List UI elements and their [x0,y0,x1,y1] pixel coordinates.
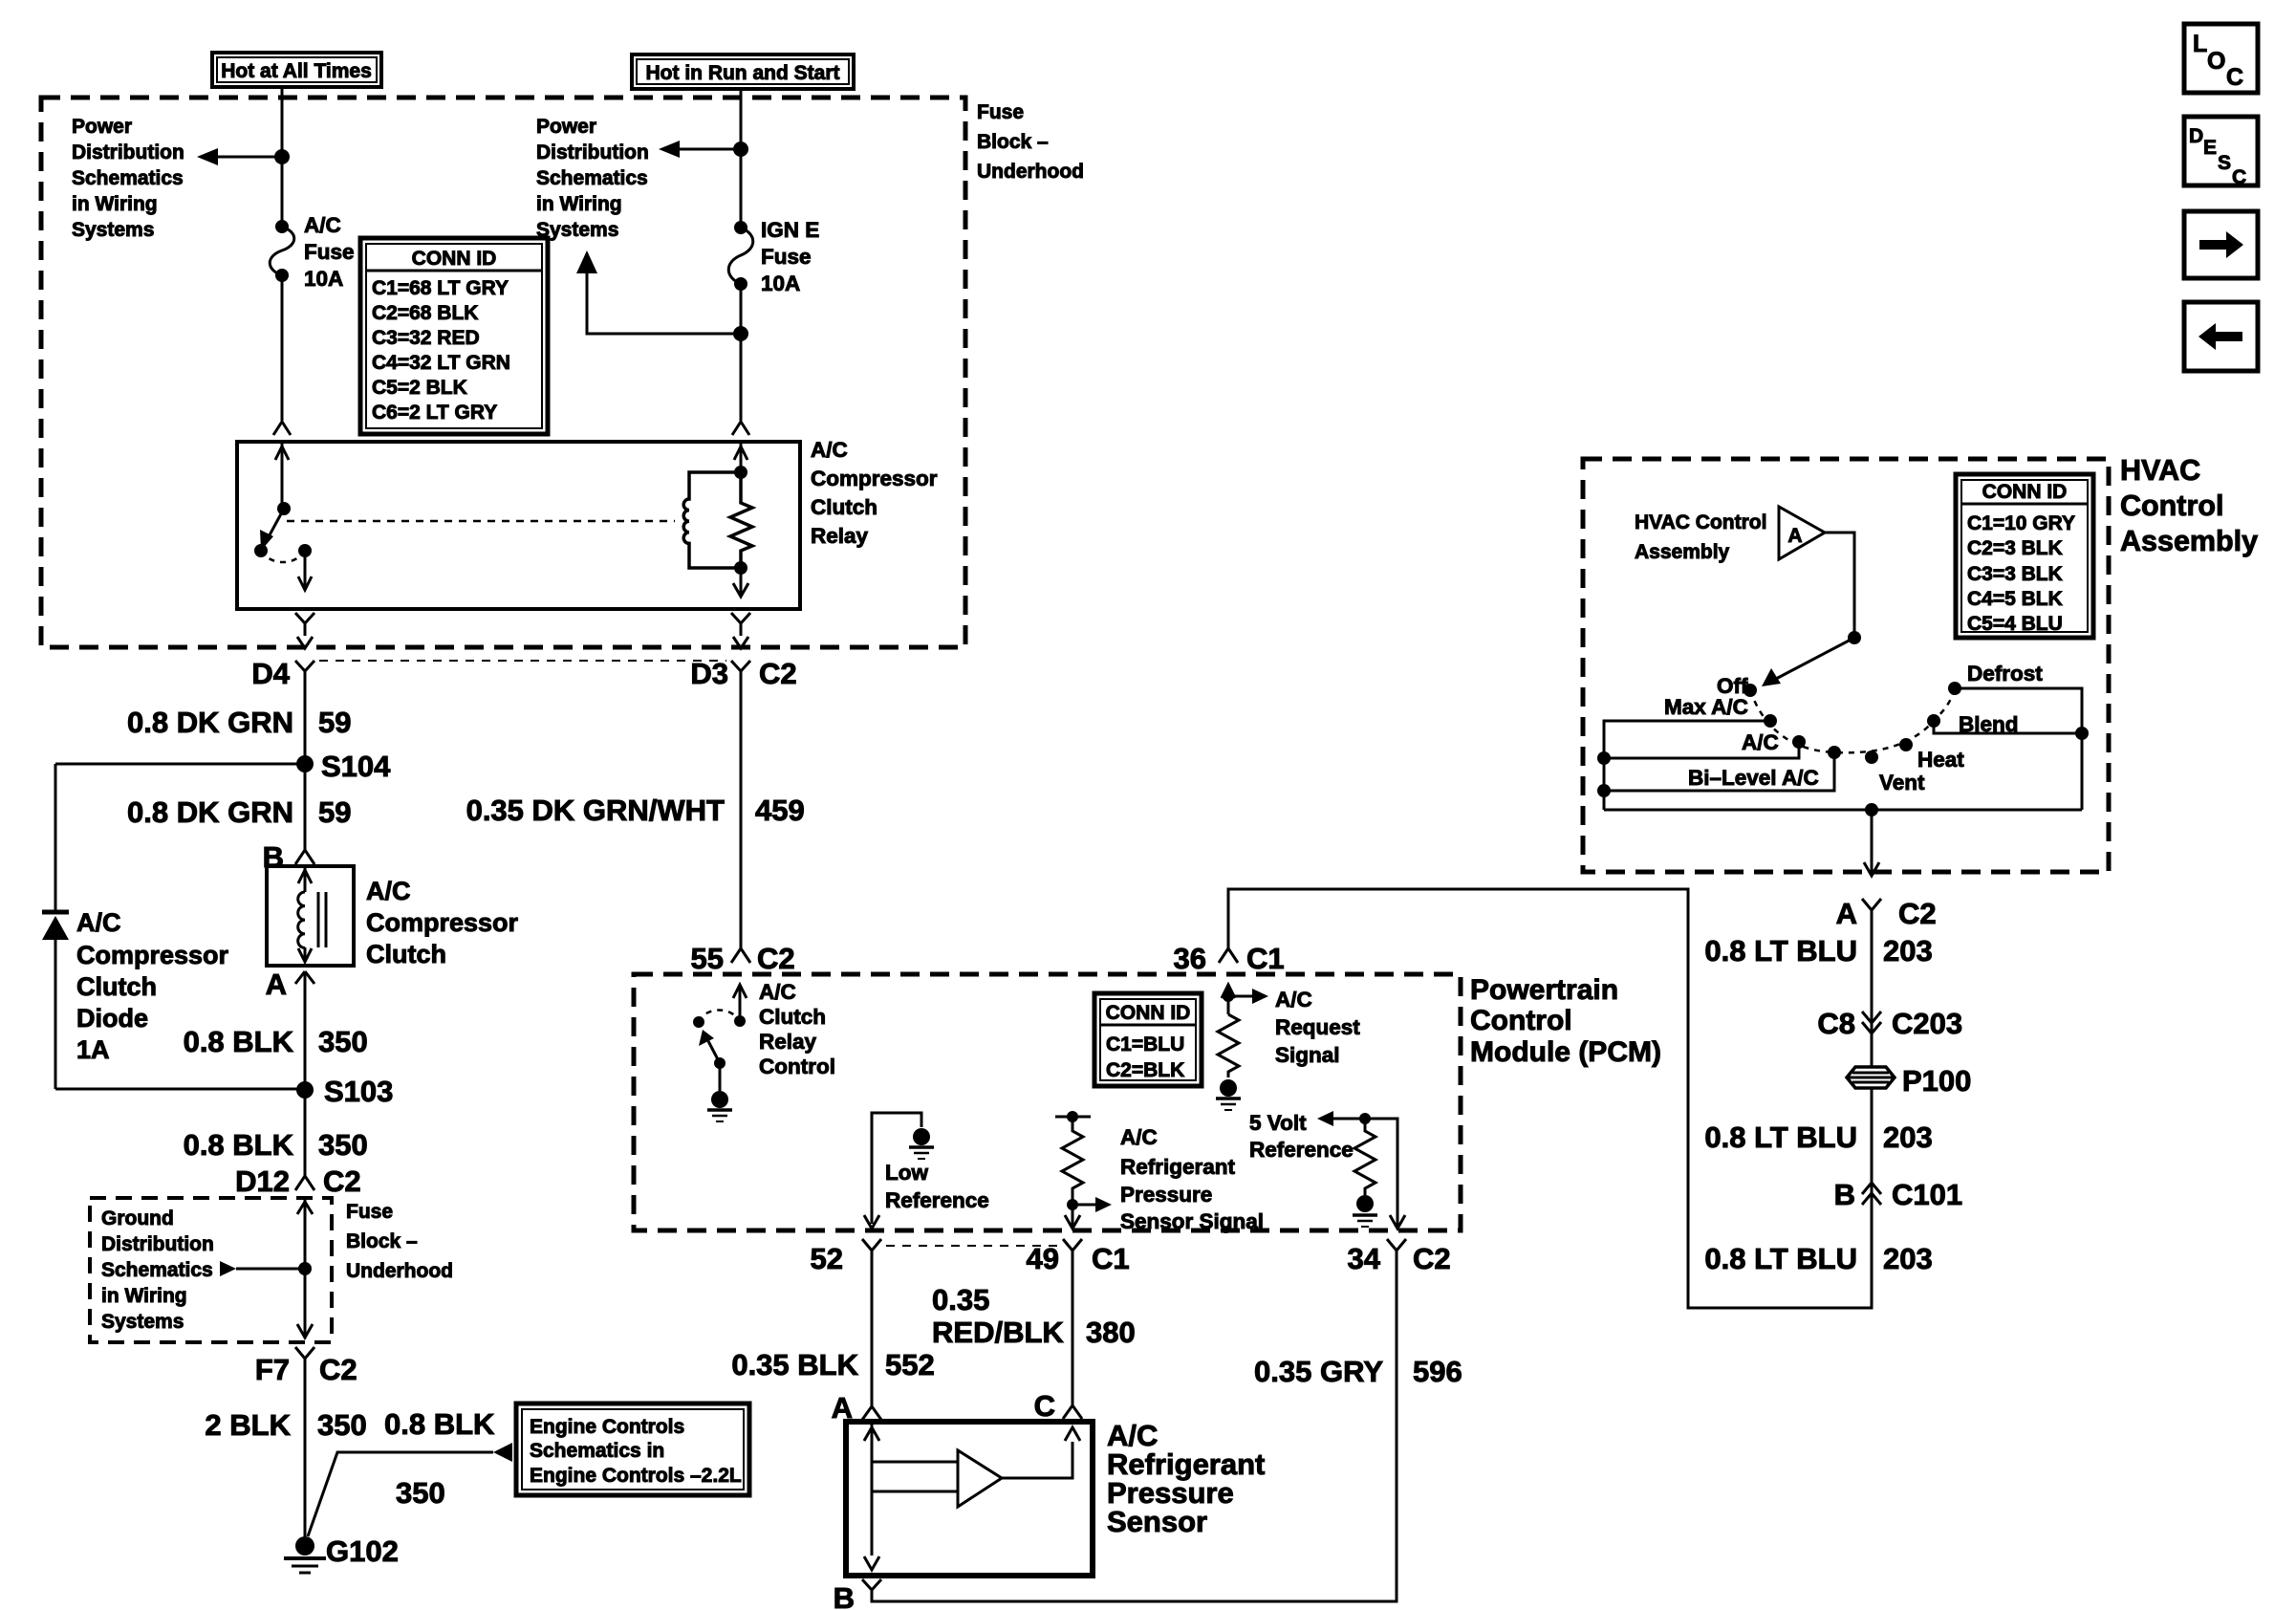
svg-text:D12: D12 [235,1164,290,1198]
connector chevron into relay box right [732,422,749,435]
svg-text:0.35 BLK: 0.35 BLK [731,1348,858,1382]
fuse A/C 10A [270,220,294,282]
sensor internal wires and op-amp [864,1422,1080,1570]
connector D4 C2 [251,657,314,690]
svg-text:Bi–Level A/C: Bi–Level A/C [1688,766,1819,790]
node S104 splice [296,750,391,783]
svg-text:0.8 BLK: 0.8 BLK [184,1025,294,1058]
svg-text:C1=10 GRY: C1=10 GRY [1967,512,2075,534]
relay coil [683,472,741,568]
svg-text:34: 34 [1348,1242,1381,1275]
svg-text:Fuse: Fuse [761,245,812,269]
svg-text:Fuse: Fuse [977,101,1024,123]
relay switch throw contact [298,544,312,590]
wire relay main right bottom arrow [733,568,748,597]
wire fuse to relay box left [281,275,284,421]
svg-text:Underhood: Underhood [346,1260,453,1282]
svg-text:Vent: Vent [1879,771,1925,794]
connector 49 C1 [1027,1239,1130,1275]
wire up-arrow feed loop [576,250,741,334]
wire Bi-Level to left bus [1597,752,1834,797]
wire branch 0.8 BLK 350 to engine controls [308,1407,512,1536]
relay switch throw dashed arc [261,551,305,562]
svg-text:Heat: Heat [1917,748,1964,772]
svg-text:1A: 1A [76,1035,110,1064]
svg-text:Clutch: Clutch [759,1005,826,1029]
label A/C Refrigerant Pressure Sensor Signal [1120,1125,1264,1233]
fuse block underhood dashed box [41,98,965,647]
resistor A/C refrigerant pressure sensor signal [1055,1111,1112,1229]
svg-text:Request: Request [1275,1015,1360,1039]
wire 52 to sensor A [731,1260,934,1406]
label A/C Compressor Clutch Diode 1A [76,908,229,1064]
diode D1 A/C compressor clutch diode [42,764,69,1089]
svg-text:Underhood: Underhood [977,161,1084,183]
connector chevron into relay box left [273,422,291,435]
connector A sensor [832,1391,881,1425]
wire bottom bus [1604,803,2082,816]
svg-text:203: 203 [1883,1242,1933,1275]
PCM dashed box [634,974,1461,1230]
wire hot-in-run vertical [740,89,743,228]
label Low Reference [885,1161,989,1212]
node junction dot left feed [274,149,290,164]
connector 36 C1 [1174,942,1285,975]
wire S103 to D12 [184,1090,368,1176]
svg-text:49: 49 [1027,1242,1059,1275]
svg-text:A/C: A/C [366,877,411,905]
svg-text:Schematics: Schematics [101,1259,213,1281]
svg-text:C1: C1 [1092,1242,1130,1275]
label A/C Compressor Clutch [366,877,519,968]
svg-text:Systems: Systems [101,1311,184,1333]
wire branch to power distribution right [659,141,741,158]
svg-text:Low: Low [885,1161,928,1185]
svg-text:in Wiring: in Wiring [72,193,158,215]
connector D3 C2 [690,657,796,690]
svg-text:C: C [2226,64,2243,91]
svg-text:Relay: Relay [759,1030,817,1054]
svg-text:0.8 BLK: 0.8 BLK [184,1128,294,1162]
svg-text:B: B [1834,1178,1855,1211]
wire buffer to selector pivot [1825,533,1861,644]
relay U1 A/C compressor clutch relay box [237,442,800,609]
svg-text:C2: C2 [759,657,797,690]
label Powertrain Control Module (PCM) [1470,974,1661,1068]
svg-text:S104: S104 [321,750,391,783]
connector 52 [811,1239,881,1275]
svg-text:Engine Controls: Engine Controls [530,1416,684,1438]
svg-text:203: 203 [1883,1120,1933,1154]
connector A C2 HVAC [1836,897,1937,930]
wire A to S103 [184,986,368,1090]
contact Heat [1899,738,1964,772]
svg-text:C2: C2 [323,1164,361,1198]
svg-text:IGN E: IGN E [761,218,819,242]
svg-text:Clutch: Clutch [366,940,446,968]
wire ign fuse to relay box right [740,284,743,421]
fuse IGN E 10A [728,221,753,291]
wire dashed connector link 52-49 [886,1245,1059,1247]
svg-text:Signal: Signal [1275,1043,1340,1067]
svg-text:0.8 LT BLU: 0.8 LT BLU [1704,934,1857,968]
connector B C101 [1834,1178,1963,1211]
svg-text:F7: F7 [255,1353,290,1386]
svg-text:2 BLK: 2 BLK [205,1408,291,1442]
svg-text:S103: S103 [324,1075,393,1108]
svg-text:Fuse: Fuse [346,1201,393,1223]
wire A to C8 [1704,922,1932,1067]
ground clutch relay control [707,1091,732,1121]
svg-text:Sensor: Sensor [1107,1505,1207,1538]
selector wiper arrow [1762,638,1854,686]
svg-text:E: E [2203,137,2217,159]
ground G102 [284,1534,399,1573]
wire Max A/C to left bus [1604,721,1770,810]
svg-text:Assembly: Assembly [1635,541,1730,563]
svg-text:C5=2 BLK: C5=2 BLK [372,377,467,399]
svg-text:Compressor: Compressor [76,941,229,969]
svg-text:0.35 DK GRN/WHT: 0.35 DK GRN/WHT [466,794,725,827]
svg-text:O: O [2207,48,2225,75]
relay switch common arm [254,442,291,557]
svg-text:A/C: A/C [304,213,341,237]
wire D3 to PCM pin 55 [466,684,805,948]
svg-text:HVAC: HVAC [2120,454,2200,487]
svg-text:C203: C203 [1892,1007,1962,1040]
svg-text:59: 59 [318,795,351,829]
connector B sensor [834,1579,881,1610]
svg-text:C5=4 BLU: C5=4 BLU [1967,613,2063,635]
svg-text:0.8 DK GRN: 0.8 DK GRN [127,706,293,739]
svg-text:A/C: A/C [1275,988,1312,1012]
svg-text:A/C: A/C [811,438,848,462]
svg-text:Reference: Reference [1249,1138,1354,1162]
wire 49 to sensor C [932,1260,1136,1405]
svg-text:Assembly: Assembly [2120,525,2258,557]
svg-text:P100: P100 [1902,1064,1971,1098]
wire Defrost to right bus [1955,688,2082,810]
svg-text:350: 350 [396,1476,445,1510]
svg-text:C: C [2232,166,2246,188]
svg-text:D3: D3 [690,657,728,690]
connector B clutch [263,840,314,874]
svg-text:459: 459 [755,794,805,827]
svg-text:Compressor: Compressor [366,908,519,937]
svg-text:10A: 10A [304,267,343,291]
svg-text:10A: 10A [761,272,800,295]
label Fuse Block - Underhood (top) [977,101,1084,183]
connector D12 C2 [235,1164,361,1198]
svg-text:C2: C2 [757,942,795,975]
svg-text:D: D [2189,125,2203,147]
reference box engine controls schematics [516,1403,749,1495]
svg-text:CONN ID: CONN ID [1982,481,2068,503]
label 5 Volt Reference [1249,1111,1354,1162]
svg-text:350: 350 [317,1408,367,1442]
connector 34 C2 [1348,1239,1451,1275]
svg-text:0.8 DK GRN: 0.8 DK GRN [127,795,293,829]
label IGN E Fuse 10A [761,218,819,295]
ground distribution dashed box [90,1198,332,1342]
svg-text:Control: Control [2120,490,2223,522]
label A/C Refrigerant Pressure Sensor [1107,1419,1265,1538]
svg-text:Schematics in: Schematics in [530,1440,664,1462]
svg-text:Distribution: Distribution [72,141,184,163]
svg-text:D4: D4 [251,657,290,690]
svg-text:Reference: Reference [885,1188,989,1212]
wire S104 to diode top [55,763,305,766]
svg-text:350: 350 [318,1128,368,1162]
selector dashed arc [1750,688,1955,752]
svg-text:A/C: A/C [759,980,796,1004]
svg-text:0.35 GRY: 0.35 GRY [1254,1355,1383,1388]
svg-text:C6=2 LT GRY: C6=2 LT GRY [372,402,497,424]
contact A/C [1742,730,1806,754]
grommet P100 [1847,1064,1971,1098]
svg-text:B: B [834,1581,855,1610]
buffer A triangle [1779,507,1825,559]
svg-text:A: A [266,968,287,1001]
wire through ground box [297,1198,313,1338]
contact Bi-Level A/C [1688,746,1841,790]
svg-text:Distribution: Distribution [536,141,649,163]
contact Blend [1927,712,2019,736]
label box Hot at All Times [212,53,381,87]
contact Defrost [1948,662,2043,695]
nav button DESC [2184,117,2258,188]
svg-text:C: C [1034,1389,1055,1423]
svg-text:5 Volt: 5 Volt [1249,1111,1307,1135]
connector C8 C203 [1817,1007,1962,1040]
svg-text:CONN ID: CONN ID [1106,1002,1191,1024]
svg-text:C2: C2 [1413,1242,1451,1275]
svg-text:CONN ID: CONN ID [412,248,497,270]
CONN ID table HVAC [1956,474,2093,638]
svg-text:350: 350 [318,1025,368,1058]
svg-text:C1=BLU: C1=BLU [1106,1033,1184,1055]
contact Max A/C [1664,695,1777,728]
svg-text:C4=5 BLK: C4=5 BLK [1967,588,2063,610]
svg-text:Hot at All Times: Hot at All Times [221,60,372,82]
svg-text:52: 52 [811,1242,843,1275]
svg-text:Block –: Block – [346,1230,418,1252]
svg-text:C2: C2 [319,1353,357,1386]
svg-text:A/C: A/C [1120,1125,1158,1149]
svg-text:552: 552 [885,1348,935,1382]
HVAC control assembly dashed box [1583,459,2109,872]
wire relay main right top arrow [734,442,747,472]
svg-text:Clutch: Clutch [811,495,877,519]
switch A/C clutch relay control [693,985,747,1091]
label A/C Fuse 10A [304,213,355,291]
svg-text:Power: Power [72,116,132,138]
sensor U2 A/C refrigerant pressure sensor box [846,1422,1093,1576]
svg-text:Schematics: Schematics [536,167,648,189]
svg-text:A/C: A/C [1742,730,1779,754]
svg-text:C8: C8 [1817,1007,1855,1040]
label Fuse Block - Underhood (bottom) [346,1201,453,1282]
wire A/C to left bus [1597,742,1799,765]
wire diode bottom to S103 [55,1088,305,1091]
resistor A/C request signal [1218,985,1268,1077]
svg-text:Schematics: Schematics [72,167,184,189]
svg-text:596: 596 [1413,1355,1462,1388]
connector 55 C2 [691,942,795,975]
clutch coil and plates [298,866,326,962]
ground low reference [909,1128,934,1159]
svg-text:Engine Controls –2.2L: Engine Controls –2.2L [530,1465,742,1487]
annotation power distribution schematics (left) [72,116,184,241]
nav button LOC [2184,24,2258,93]
wire PCM pin 36 to HVAC loop [1228,889,1872,1308]
annotation ground distribution schematics [101,1207,214,1333]
svg-text:59: 59 [318,706,351,739]
svg-text:36: 36 [1174,942,1206,975]
svg-text:G102: G102 [326,1534,399,1568]
svg-text:Control: Control [1470,1005,1572,1036]
wire F7 to G102 [205,1371,366,1541]
svg-text:Pressure: Pressure [1120,1183,1212,1207]
svg-text:C1: C1 [1246,942,1285,975]
label A/C Clutch Relay Control [759,980,835,1078]
relay actuation dashed link [287,520,675,523]
node coil bottom junction [734,561,747,575]
svg-text:Control: Control [759,1055,835,1078]
svg-text:RED/BLK: RED/BLK [932,1316,1064,1349]
svg-text:C3=3 BLK: C3=3 BLK [1967,563,2063,585]
wire C101 down [1704,1242,1932,1275]
svg-text:Defrost: Defrost [1967,662,2043,685]
svg-text:Ground: Ground [101,1207,174,1229]
label A/C Request Signal [1275,988,1360,1067]
svg-text:Power: Power [536,116,596,138]
svg-text:A: A [1836,897,1857,930]
svg-text:C4=32 LT GRN: C4=32 LT GRN [372,352,510,374]
wire 34 to sensor B [872,1260,1462,1601]
svg-text:380: 380 [1086,1316,1136,1349]
connector exit below relay box left [295,613,314,648]
node ground box junction [298,1262,312,1275]
svg-text:Refrigerant: Refrigerant [1120,1155,1236,1179]
node coil top junction [734,466,747,479]
wire branch to power distribution [197,148,282,165]
wire branch to ground schematics arrow [220,1261,305,1276]
svg-text:55: 55 [691,942,724,975]
svg-text:Compressor: Compressor [811,467,938,490]
svg-text:L: L [2193,31,2207,57]
svg-text:C2=BLK: C2=BLK [1106,1059,1184,1081]
svg-text:Module (PCM): Module (PCM) [1470,1036,1661,1068]
node junction dot right feed [733,141,748,157]
svg-text:in Wiring: in Wiring [536,193,622,215]
svg-text:Diode: Diode [76,1004,148,1033]
svg-text:0.8 LT BLU: 0.8 LT BLU [1704,1242,1857,1275]
contact Vent [1865,751,1925,794]
svg-text:A/C: A/C [76,908,121,937]
svg-text:HVAC Control: HVAC Control [1635,511,1766,533]
svg-text:C2=68 BLK: C2=68 BLK [372,302,478,324]
svg-text:S: S [2218,152,2231,174]
svg-text:C2=3 BLK: C2=3 BLK [1967,537,2063,559]
wire hot-at-all-times vertical [281,87,284,227]
ground A/C request signal [1216,1079,1241,1110]
svg-text:Powertrain: Powertrain [1470,974,1618,1006]
annotation HVAC Control Assembly (inner) [1635,511,1766,563]
resistor 5 volt reference [1317,1111,1405,1229]
connector F7 C2 [255,1347,357,1386]
svg-text:in Wiring: in Wiring [101,1285,187,1307]
svg-text:0.35: 0.35 [932,1283,989,1316]
label HVAC Control Assembly title [2120,454,2258,557]
svg-text:C3=32 RED: C3=32 RED [372,327,480,349]
svg-text:203: 203 [1883,934,1933,968]
connector A clutch [266,968,314,1001]
svg-text:Sensor Signal: Sensor Signal [1120,1209,1264,1233]
clutch L1 A/C compressor clutch box [267,866,354,966]
svg-text:Hot in Run and Start: Hot in Run and Start [646,62,840,84]
wire S104 to clutch B [127,764,351,850]
svg-text:Clutch: Clutch [76,972,157,1001]
nav button arrow left [2184,302,2258,371]
label box Hot in Run and Start [632,54,854,89]
connector exit below relay box right [731,613,750,648]
contact Off [1717,674,1757,698]
connector C sensor [1034,1389,1082,1423]
label A/C Compressor Clutch Relay [811,438,938,548]
node junction dot ign feed [733,326,748,341]
resistor relay coil suppression [730,472,752,568]
svg-text:Relay: Relay [811,524,869,548]
svg-text:Block –: Block – [977,131,1049,153]
annotation power distribution schematics (right) [536,116,649,241]
ground 5 volt reference [1353,1195,1377,1227]
svg-text:Systems: Systems [72,219,154,241]
svg-text:Max A/C: Max A/C [1664,695,1748,719]
CONN ID table fuse block [360,238,548,434]
wire P100 to C101 [1704,1087,1932,1272]
wire selector output [1864,810,1879,876]
svg-text:Distribution: Distribution [101,1233,214,1255]
nav button arrow right [2184,211,2258,278]
svg-text:A: A [1787,525,1802,547]
wire dashed connector link D4-D3 [319,660,726,662]
svg-text:C101: C101 [1892,1178,1962,1211]
wire Blend to right bus [1934,721,2089,740]
wire D4 to S104 [127,684,351,764]
low reference wire [864,1113,921,1229]
svg-text:C1=68 LT GRY: C1=68 LT GRY [372,277,509,299]
svg-text:Fuse: Fuse [304,240,355,264]
svg-text:0.8 LT BLU: 0.8 LT BLU [1704,1120,1857,1154]
node S103 splice [296,1075,393,1108]
CONN ID table PCM [1094,993,1202,1086]
svg-text:C2: C2 [1898,897,1937,930]
svg-text:0.8 BLK: 0.8 BLK [384,1407,495,1441]
